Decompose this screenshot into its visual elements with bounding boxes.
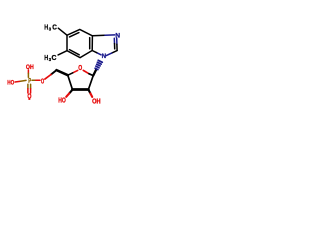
bond C3'-OH: [66, 90, 72, 97]
svg-text:HO: HO: [7, 80, 14, 87]
svg-text:O: O: [41, 78, 45, 85]
upper methyl H3C label: [44, 24, 57, 32]
svg-text:N: N: [102, 53, 107, 60]
bold bond C4'-C5': [57, 70, 68, 75]
svg-text:OH: OH: [26, 65, 34, 71]
lower methyl H3C label: [44, 54, 56, 62]
bond C6-CH3 (lower methyl): [58, 51, 67, 55]
double bond P=O left line: [27, 84, 29, 93]
svg-text:P: P: [28, 78, 31, 85]
ribose bond O4'-C1': [83, 70, 93, 75]
svg-text:C: C: [52, 24, 57, 31]
svg-text:N: N: [115, 32, 120, 39]
double-bond O bottom serif: [28, 98, 30, 100]
svg-text:HO: HO: [58, 97, 66, 105]
bond N1-C7a: [92, 51, 101, 55]
bond HO-P (left hydroxyl): [15, 80, 26, 82]
aromatic inner line, upper-left edge: [70, 33, 79, 37]
double bond P=O right line: [30, 84, 32, 93]
bond C3a-N3: [92, 34, 114, 37]
svg-text:O: O: [78, 64, 82, 72]
bond C5'-O5' (ester oxygen): [45, 70, 57, 79]
ribose bold front bond C2'-C3': [72, 88, 88, 91]
aromatic inner line, lower-left edge: [70, 50, 80, 55]
ribose bond O4'-C4': [68, 70, 78, 75]
aromatic inner line, right edge: [89, 38, 91, 49]
bond P-O5': [32, 79, 40, 81]
ribose bond C1'-C2': [88, 76, 93, 90]
bond C5-CH3 (upper methyl): [58, 28, 67, 35]
ribose bond C3'-C4': [68, 75, 73, 89]
benzene ring of 5,6-dimethylbenzimidazole: [67, 29, 92, 57]
bond C2-N1: [106, 51, 117, 56]
hashed wedge bond C1'-N1 (alpha glycosidic): [93, 60, 102, 75]
double bond N3=C2 inner line: [113, 38, 115, 49]
svg-text:C: C: [52, 55, 57, 62]
svg-text:OH: OH: [92, 98, 101, 106]
bond C2'-OH: [89, 90, 93, 97]
double bond N3=C2 outer line: [116, 38, 118, 50]
bond P-OH (top hydroxyl): [27, 70, 29, 77]
